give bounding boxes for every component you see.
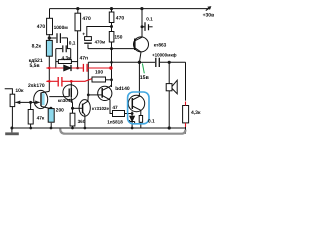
transistor Q5 collector (down) bbox=[102, 95, 112, 113]
wire R1 bottom to R2 top bbox=[48, 34, 50, 40]
red feedback row B wire left bbox=[47, 80, 58, 82]
transistor Q5 base bar bbox=[101, 88, 103, 98]
transistor Q1 collector bbox=[135, 9, 142, 41]
red tick below R12 bbox=[185, 123, 187, 127]
red feedback row A wire left bbox=[47, 67, 64, 69]
capacitor C4 right stub bbox=[149, 26, 153, 28]
svg-text:8,2к: 8,2к bbox=[32, 44, 42, 50]
diode D1 kd521 bbox=[64, 65, 71, 71]
wire right branch down bbox=[185, 62, 187, 100]
junction dot VAS row / emitter line bbox=[110, 61, 113, 64]
wire C2 left corner down bbox=[55, 49, 57, 68]
svg-text:bd140: bd140 bbox=[115, 86, 130, 92]
svg-text:470: 470 bbox=[82, 16, 91, 22]
potentiometer RV1 10k body bbox=[10, 94, 15, 106]
junction dot Q1 collector / C4 bbox=[141, 25, 144, 28]
wire gate of Q3 from drain node bbox=[49, 96, 69, 98]
green annotation pointer bbox=[142, 64, 144, 74]
junction dot base node Q6 bbox=[131, 112, 134, 115]
transistor Q1 base bar bbox=[134, 39, 136, 51]
red junction dot row A right bbox=[109, 66, 112, 69]
wire R4 right lead bbox=[71, 61, 77, 63]
resistor R11 0.1 emitter bbox=[139, 116, 142, 123]
red feedback row B wire right bbox=[63, 79, 93, 82]
svg-text:+: + bbox=[82, 31, 85, 37]
transistor Q2 channel bar bbox=[40, 93, 42, 107]
red junction dot row A left bbox=[46, 67, 50, 70]
wire wiper to gate bbox=[15, 101, 39, 103]
transistor Q1 emitter bbox=[135, 48, 141, 63]
wire VAS horizontal y62 bbox=[88, 61, 139, 63]
capacitor C3 bottom plate bbox=[84, 42, 92, 44]
wire R4 left lead bbox=[56, 61, 59, 63]
junction dot x89.5 bbox=[87, 94, 90, 97]
capacitor C2 right lead bbox=[67, 48, 71, 50]
resistor R2 8,2k (cyan highlighted) bbox=[46, 40, 52, 56]
junction dot Q4 base tap bbox=[71, 107, 74, 110]
capacitor C2 0,1 left lead with corner bbox=[56, 48, 62, 50]
speaker LS1 box bbox=[166, 84, 172, 91]
junction node R3 lead / feedback row A bbox=[76, 67, 79, 70]
transistor Q2 2sk170 circle bbox=[34, 90, 48, 108]
red feedback row A wire right bbox=[71, 67, 110, 69]
gate arrowhead bbox=[35, 101, 40, 105]
capacitor C1 right lead bbox=[61, 38, 67, 49]
svg-text:кт863: кт863 bbox=[154, 42, 167, 48]
wire Q2 source to R8 bbox=[41, 106, 51, 108]
resistor R8 200 (cyan) bbox=[48, 109, 54, 123]
grey return bus bbox=[60, 129, 185, 134]
svg-text:1000м: 1000м bbox=[54, 25, 69, 31]
red junction dot row B left bbox=[46, 80, 50, 83]
wire J1 branch to C3 bbox=[87, 27, 112, 37]
junction dot rail/Q1 bbox=[140, 7, 143, 10]
speaker LS1 cone bbox=[172, 80, 177, 94]
capacitor C4 plates bbox=[145, 22, 149, 31]
svg-text:360: 360 bbox=[78, 119, 86, 124]
svg-text:0.1: 0.1 bbox=[148, 119, 155, 125]
junction node R1/R2/C1 bbox=[48, 36, 51, 39]
node top rail to R3 bbox=[77, 9, 79, 14]
transistor Q6 base bar bbox=[131, 98, 133, 109]
wire input stub bbox=[5, 89, 13, 94]
wire jog to JFET drain bbox=[41, 91, 49, 92]
wire J2 down (bd140 emitter line) bbox=[111, 49, 113, 87]
transistor Q3 gate bar bbox=[68, 89, 70, 97]
svg-text:1n5818: 1n5818 bbox=[107, 119, 123, 124]
svg-text:100: 100 bbox=[95, 69, 103, 75]
resistor R13 100 bbox=[92, 77, 106, 82]
svg-text:+10000мкф: +10000мкф bbox=[152, 52, 177, 57]
wire rail to R5 bbox=[111, 9, 113, 12]
capacitor C1 1000m left lead bbox=[49, 37, 56, 39]
wire C3 bottom lead / base wire to Q1 bbox=[88, 44, 136, 48]
capacitor C5 10000mkf left lead bbox=[139, 61, 155, 63]
capacitor C6 47p red plates bbox=[83, 64, 87, 72]
diode D2 schottky bar bbox=[130, 120, 135, 123]
diode D2 1n5818 bbox=[130, 116, 135, 121]
wire vertical x89.5 bbox=[87, 62, 89, 95]
svg-text:470: 470 bbox=[37, 24, 46, 30]
svg-text:4,3к: 4,3к bbox=[62, 56, 72, 62]
junction dot wiper/R7 bbox=[29, 101, 32, 104]
wire R11 bottom bbox=[140, 122, 142, 128]
capacitor C7 red plates bbox=[58, 77, 62, 87]
wire top supply rail bbox=[50, 8, 211, 10]
svg-text:470м: 470м bbox=[95, 39, 106, 44]
transistor Q3 kp304a circle bbox=[63, 85, 78, 100]
transistor Q4 emitter bbox=[83, 112, 85, 128]
junction node J1 bbox=[110, 25, 113, 28]
node top rail to R1 bbox=[49, 9, 51, 19]
svg-text:0,1: 0,1 bbox=[69, 41, 76, 47]
wire speaker bottom bbox=[168, 91, 170, 128]
transistor Q4 base bar bbox=[82, 104, 84, 114]
resistor R1 470 (top left) bbox=[47, 18, 53, 34]
junction dot Q2 source / R8 bbox=[49, 107, 52, 110]
svg-text:кп304а: кп304а bbox=[58, 98, 73, 103]
capacitor C5 plates bbox=[156, 58, 160, 67]
wire main vertical below R2 bbox=[48, 56, 50, 91]
capacitor C1 plates bbox=[57, 33, 60, 43]
svg-text:4,3к: 4,3к bbox=[191, 110, 201, 116]
wire R12 bottom to grey rail bbox=[185, 127, 187, 134]
resistor R9 360 bbox=[70, 113, 75, 126]
resistor R4 4,3k (parallel diode) bbox=[58, 60, 71, 64]
junction dot output node bbox=[138, 61, 141, 64]
resistor R3 470 (second top) bbox=[75, 13, 81, 31]
wire R5 to R6 bbox=[111, 23, 113, 32]
capacitor C3 470m electrolytic top plate bbox=[85, 37, 92, 41]
transistor Q3 channel bar bbox=[70, 88, 72, 97]
blue highlight box around output transistor bbox=[128, 92, 149, 124]
resistor R5 470 (x111 top) bbox=[109, 12, 114, 23]
svg-text:2sk170: 2sk170 bbox=[28, 83, 45, 89]
svg-text:5,5в: 5,5в bbox=[30, 63, 40, 69]
wire Q4 base bbox=[73, 107, 83, 109]
junction dots on rail bbox=[29, 127, 32, 130]
terminal +30V arrow bbox=[206, 7, 211, 11]
ground symbol stem bbox=[11, 128, 13, 132]
wire R7 bottom bbox=[30, 124, 32, 128]
wire gate node to R7 bbox=[30, 102, 32, 109]
svg-text:150: 150 bbox=[114, 34, 122, 40]
capacitor C5 right lead bbox=[160, 61, 186, 63]
capacitor C4 0.1 left lead bbox=[142, 26, 144, 28]
wire R9 bottom bbox=[72, 126, 74, 128]
red tick above R12 bbox=[185, 102, 187, 106]
junction dot speaker node bbox=[168, 61, 171, 64]
junction dot speaker/rail bbox=[168, 126, 171, 129]
transistor Q5 bd140 circle bbox=[98, 86, 112, 100]
wire R6 bottom to J2 bbox=[111, 42, 113, 49]
capacitor C2 plates bbox=[63, 45, 66, 52]
ground symbol bar bbox=[5, 132, 19, 135]
wire C2 right corner down bbox=[70, 49, 72, 62]
transistor Q5 emitter (up) bbox=[102, 85, 111, 90]
transistor Q6 emitter down bbox=[132, 106, 141, 116]
svg-text:+30в: +30в bbox=[203, 13, 215, 19]
svg-text:47: 47 bbox=[112, 105, 118, 111]
wire R10 to base node bbox=[125, 113, 133, 115]
wire R13 right lead bbox=[106, 79, 112, 81]
transistor Q2 channel highlight (cyan) bbox=[42, 93, 45, 105]
transistor Q4 collector bbox=[83, 95, 89, 105]
svg-text:200: 200 bbox=[56, 108, 64, 114]
transistor Q4 kt3102e circle bbox=[79, 100, 90, 117]
svg-text:470: 470 bbox=[116, 15, 125, 21]
svg-text:кт3102е: кт3102е bbox=[92, 106, 109, 111]
junction dot rail/R3 bbox=[76, 7, 79, 10]
wire Q3 drain up to feedback row bbox=[70, 81, 72, 88]
wire R3 bottom bbox=[77, 31, 79, 68]
wire pot bottom bbox=[11, 107, 13, 128]
junction node J2 bbox=[110, 47, 113, 50]
resistor R12 4,3k bbox=[183, 106, 189, 123]
wire R8 bottom bbox=[50, 123, 52, 128]
wire Q4 collector to Q5 base bbox=[88, 94, 102, 96]
resistor R10 47 bbox=[113, 111, 125, 117]
transistor Q6 collector up bbox=[132, 62, 139, 100]
junction dot rail/R5 bbox=[110, 7, 113, 10]
wire Q6 base down to node bbox=[131, 112, 133, 117]
resistor R6 150 bbox=[109, 32, 114, 43]
resistor R7 47k bbox=[28, 110, 33, 125]
svg-text:10к: 10к bbox=[15, 88, 24, 94]
wire speaker drop bbox=[168, 62, 170, 83]
wire D2 bottom bbox=[131, 122, 133, 129]
transistor Q6 kt863 output circle bbox=[128, 95, 144, 111]
svg-text:47п: 47п bbox=[80, 56, 89, 62]
svg-text:15в: 15в bbox=[140, 75, 149, 81]
svg-text:0.1: 0.1 bbox=[146, 17, 153, 22]
junction dot R13/vertical bbox=[110, 78, 113, 81]
transistor Q1 kt863 driver circle bbox=[134, 37, 149, 52]
red junction dot row B / Q3 drain bbox=[70, 80, 73, 83]
svg-text:47к: 47к bbox=[37, 116, 45, 122]
wire bottom ground rail bbox=[12, 127, 186, 129]
wire Q3 source down bbox=[71, 97, 72, 113]
wiper arrowhead bbox=[15, 101, 20, 105]
